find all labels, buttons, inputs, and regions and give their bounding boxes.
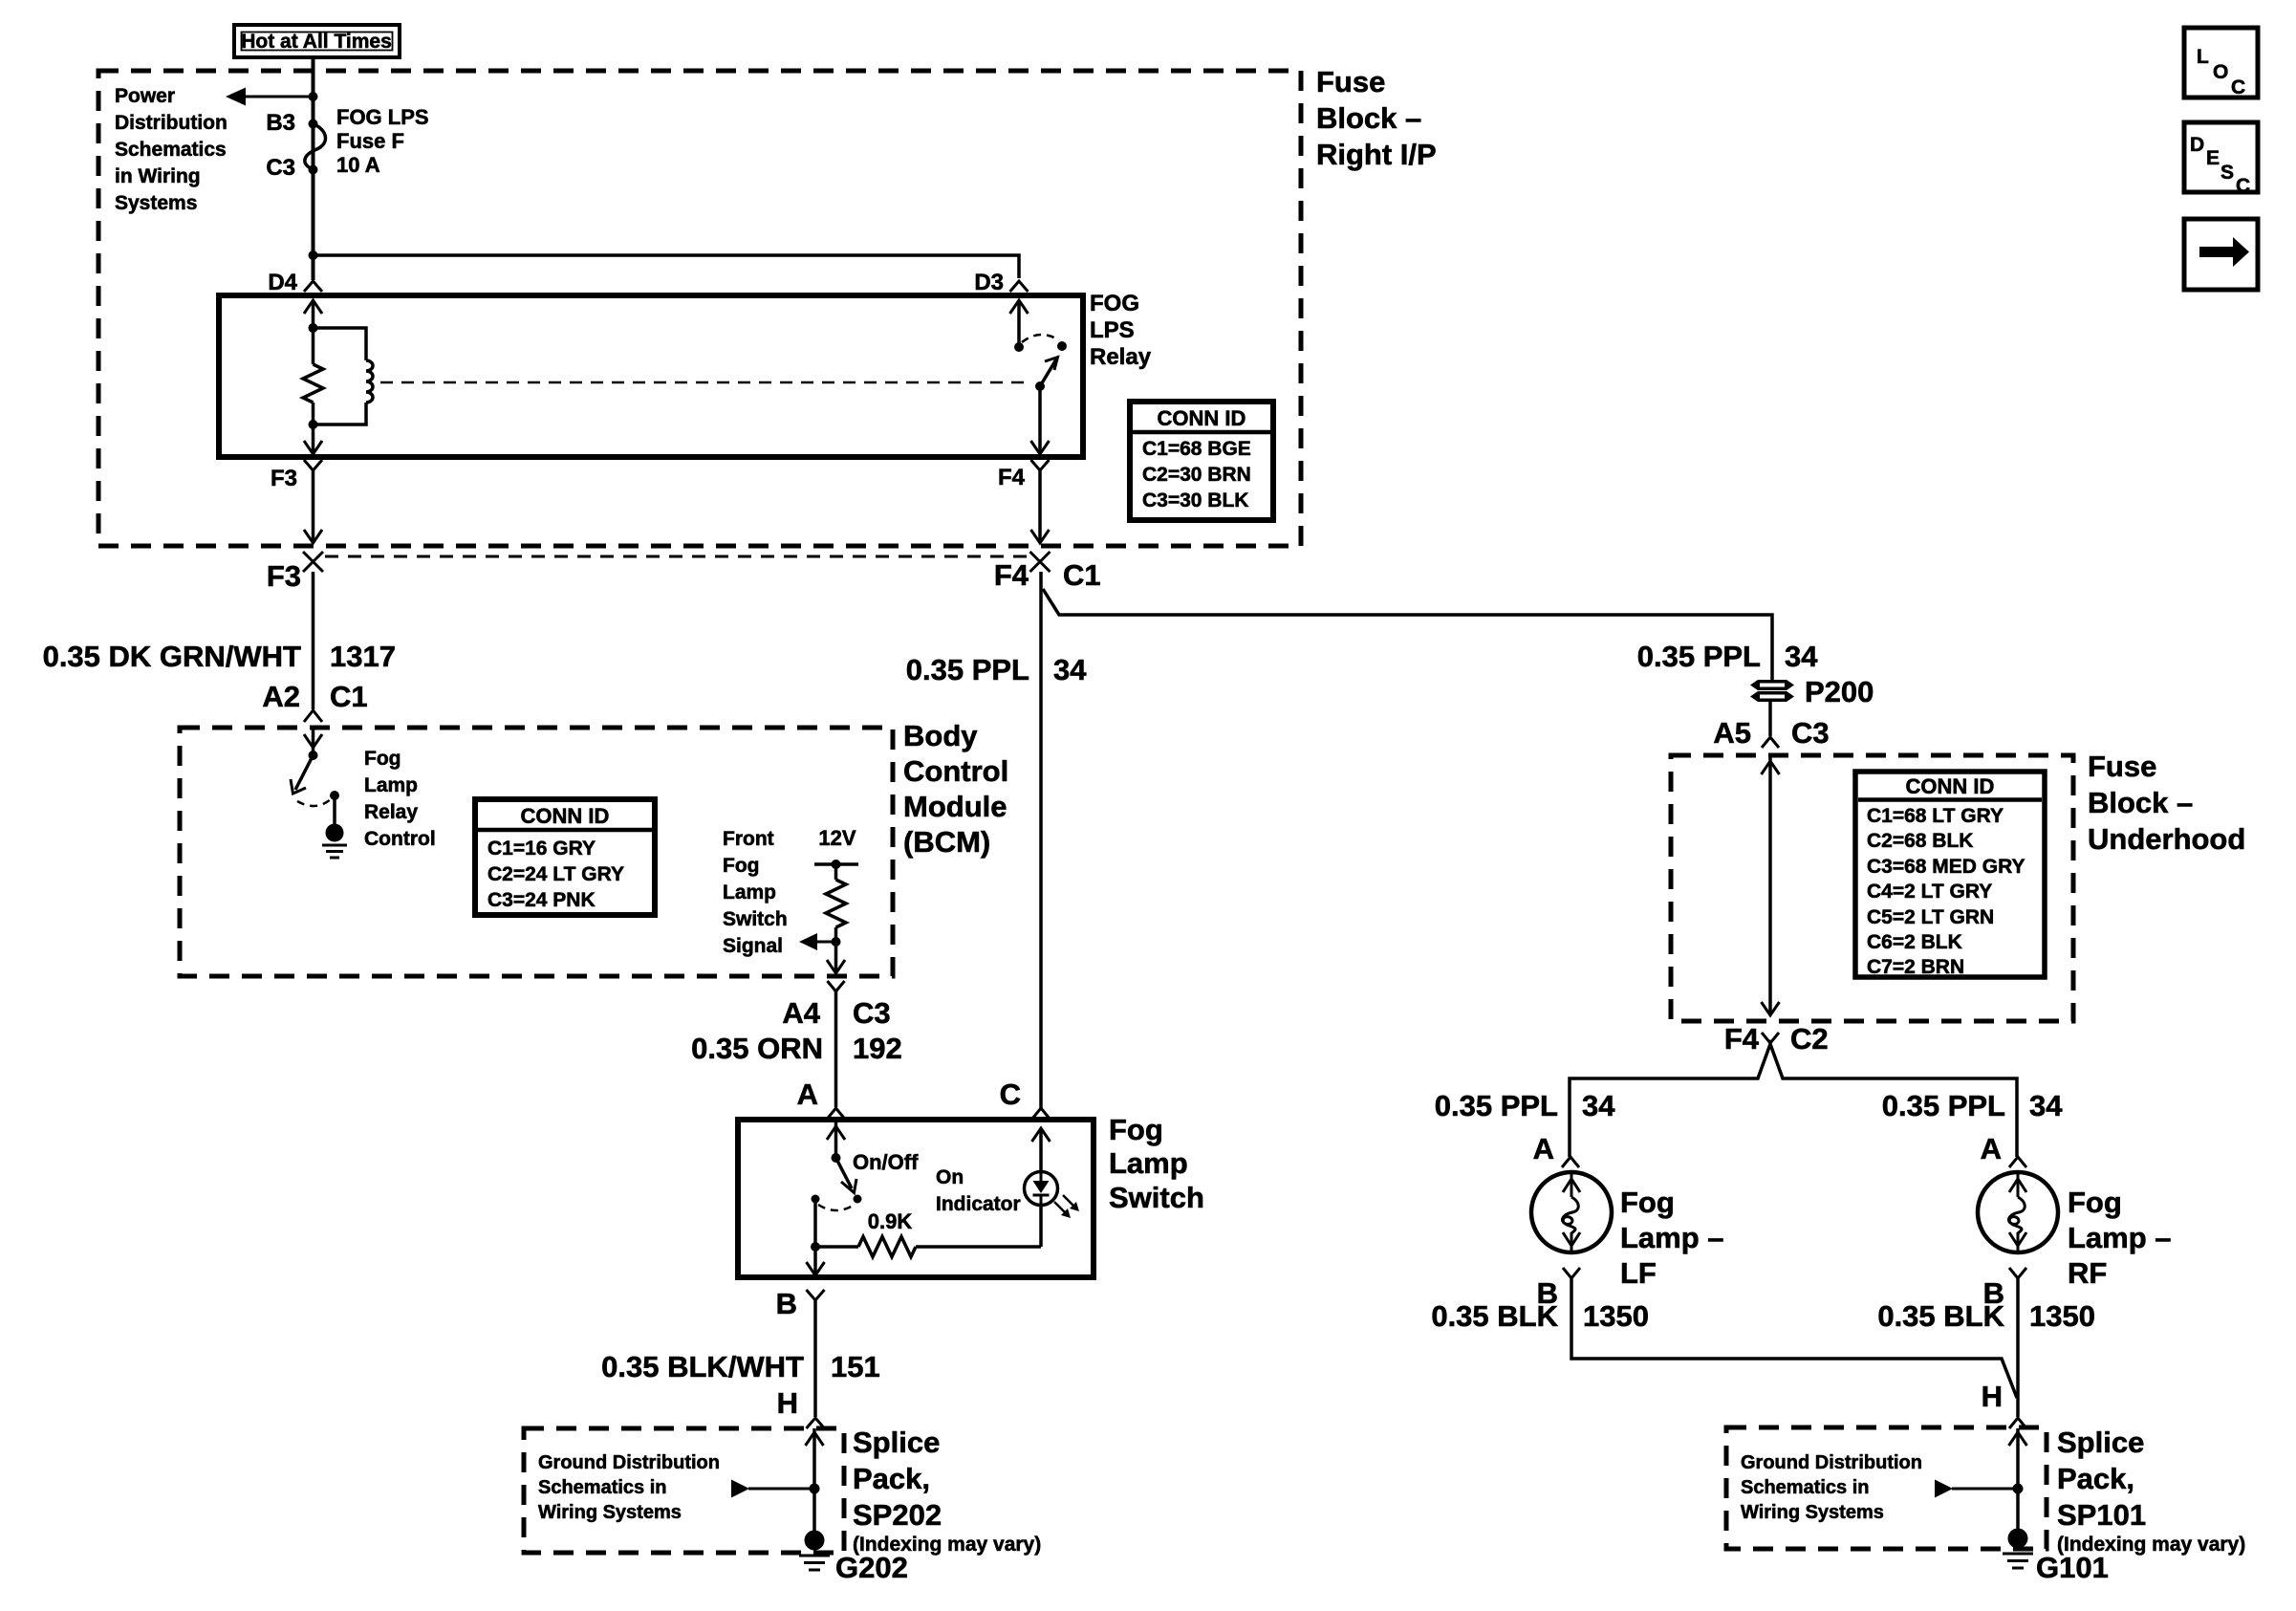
svg-text:FOG: FOG [1090, 291, 1139, 316]
svg-text:151: 151 [831, 1350, 880, 1383]
pin B lamp LF [1537, 1268, 1580, 1310]
pin A2 C1 [262, 680, 367, 722]
svg-text:P200: P200 [1805, 675, 1874, 708]
wire dashed control arc [297, 799, 331, 806]
svg-text:Fog: Fog [1109, 1113, 1163, 1146]
svg-text:L: L [2197, 46, 2209, 68]
svg-text:On/Off: On/Off [853, 1150, 919, 1174]
wire contact to output junction [813, 1199, 817, 1247]
node coil top junction [309, 323, 318, 333]
svg-text:0.9K: 0.9K [868, 1209, 913, 1233]
svg-text:Switch: Switch [1109, 1181, 1204, 1214]
svg-text:Relay: Relay [364, 801, 418, 823]
switch fog lamp relay control driver [291, 751, 318, 794]
svg-text:Lamp –: Lamp – [1620, 1221, 1724, 1254]
svg-text:D3: D3 [974, 270, 1004, 295]
svg-text:34: 34 [1582, 1089, 1615, 1122]
label Fog Lamp - RF [2068, 1186, 2172, 1290]
svg-text:C7=2 BRN: C7=2 BRN [1867, 956, 1964, 978]
label 0.35 BLK 1350 LF [1431, 1299, 1649, 1333]
label Splice Pack SP101 [2057, 1426, 2245, 1556]
svg-text:1350: 1350 [2029, 1299, 2095, 1333]
label 0.35 PPL 34 right top [1637, 640, 1818, 673]
svg-text:0.35 PPL: 0.35 PPL [906, 653, 1029, 686]
pin F4 relay [998, 460, 1050, 490]
svg-text:F3: F3 [271, 466, 297, 491]
resistor relay suppression [303, 328, 323, 425]
wire through underhood fuse block [1762, 755, 1780, 1015]
wire relay actuation dashed link [380, 381, 1032, 384]
svg-text:0.35 DK GRN/WHT: 0.35 DK GRN/WHT [43, 640, 301, 673]
svg-text:Fog: Fog [723, 855, 759, 877]
pin H splice pack SP202 [777, 1386, 825, 1428]
wire signal sense arrow [799, 933, 836, 950]
svg-text:D: D [2190, 134, 2204, 156]
svg-text:C3=30 BLK: C3=30 BLK [1142, 490, 1248, 512]
inductor relay coil [314, 328, 374, 425]
svg-text:(BCM): (BCM) [903, 825, 990, 859]
svg-text:Switch: Switch [723, 908, 788, 930]
svg-text:LPS: LPS [1090, 317, 1135, 343]
wire signal to A4 [827, 942, 845, 973]
label 0.35 PPL 34 mid [906, 653, 1087, 686]
svg-text:Distribution: Distribution [115, 112, 227, 134]
label Fog Lamp Switch [1109, 1113, 1204, 1214]
svg-text:S: S [2220, 162, 2234, 184]
svg-text:Splice: Splice [2057, 1426, 2144, 1459]
svg-text:Body: Body [903, 719, 978, 752]
svg-text:0.35 PPL: 0.35 PPL [1435, 1089, 1558, 1122]
svg-text:Pack,: Pack, [853, 1462, 930, 1495]
svg-text:F4: F4 [994, 558, 1029, 592]
svg-text:C3: C3 [266, 155, 295, 181]
svg-text:SP202: SP202 [853, 1498, 942, 1532]
node splice junction SP202 [810, 1484, 820, 1494]
wire branch to D3 [314, 255, 1020, 278]
pin A4 C3 [782, 981, 890, 1030]
wire ground reference arrow SP202 [731, 1480, 814, 1498]
svg-text:C1=16 GRY: C1=16 GRY [487, 838, 596, 860]
svg-text:D4: D4 [268, 270, 297, 295]
label Fog Lamp Relay Control [364, 748, 436, 850]
table CONN ID C1=68 BGE [1130, 402, 1273, 520]
svg-text:Lamp: Lamp [723, 882, 776, 903]
svg-text:C: C [2231, 76, 2245, 98]
svg-text:Fog: Fog [1620, 1186, 1675, 1219]
svg-text:SP101: SP101 [2057, 1498, 2146, 1532]
node 12V supply rail [814, 826, 858, 869]
svg-text:34: 34 [1785, 640, 1818, 673]
label 0.35 ORN 192 [691, 1032, 902, 1065]
ground distribution dashed box SP202 [524, 1428, 844, 1553]
svg-text:Hot at All Times: Hot at All Times [241, 31, 392, 53]
svg-text:0.35 PPL: 0.35 PPL [1637, 640, 1761, 673]
svg-text:C3=24 PNK: C3=24 PNK [487, 889, 596, 911]
svg-text:RF: RF [2068, 1256, 2107, 1290]
wire output to B with arrow [807, 1247, 825, 1275]
svg-text:H: H [777, 1386, 798, 1420]
ground G202 [799, 1531, 908, 1585]
svg-text:On: On [936, 1166, 964, 1188]
svg-text:Front: Front [723, 828, 774, 850]
wire H into splice pack SP101 [2009, 1428, 2027, 1530]
pin A lamp LF [1533, 1132, 1579, 1167]
svg-text:A: A [1533, 1132, 1554, 1165]
svg-text:Indicator: Indicator [936, 1193, 1021, 1215]
LED light emission arrows [1054, 1195, 1079, 1218]
svg-text:C: C [1000, 1078, 1021, 1111]
table CONN ID C1=68 LT GRY [1855, 772, 2045, 978]
connector F3 x-splice [267, 552, 323, 593]
svg-text:192: 192 [853, 1032, 902, 1065]
resistor 0.9K [815, 1209, 1041, 1257]
wire LED to C pin [1032, 1128, 1051, 1172]
svg-text:10 A: 10 A [336, 153, 380, 177]
node switch signal junction [832, 937, 841, 947]
svg-text:Lamp: Lamp [1109, 1146, 1188, 1180]
svg-text:A4: A4 [782, 996, 820, 1030]
wire A into switch [827, 1120, 845, 1158]
node relay switch fixed contact [1014, 342, 1024, 352]
node junction power-dist tap [309, 92, 318, 101]
label 0.35 BLK/WHT 151 [601, 1350, 880, 1383]
svg-text:A5: A5 [1713, 716, 1751, 750]
svg-text:Fog: Fog [364, 748, 401, 770]
pin A5 C3 [1713, 702, 1829, 750]
label Fuse Block - Right I/P [1316, 65, 1437, 171]
wire F4 C1 to fog lamp switch C [1039, 572, 1043, 1108]
relay box FOG LPS Relay [219, 295, 1083, 457]
pin C switch [1000, 1078, 1050, 1119]
label 0.35 DK GRN/WHT 1317 [43, 640, 396, 673]
node junction to D3 branch [309, 250, 318, 260]
svg-text:Control: Control [364, 828, 436, 850]
wire power distribution reference arrow [226, 88, 314, 106]
node splice junction SP101 [2013, 1484, 2024, 1494]
svg-text:C3: C3 [1791, 716, 1830, 750]
label Fuse Block - Underhood [2088, 750, 2245, 856]
resistor pull-up BCM [826, 864, 846, 942]
svg-text:C1: C1 [1063, 558, 1101, 592]
svg-text:CONN ID: CONN ID [1906, 774, 1995, 798]
svg-text:C3=68 MED GRY: C3=68 MED GRY [1867, 856, 2025, 878]
fuse block right I/P dashed box [98, 71, 1301, 546]
svg-text:Block –: Block – [2088, 786, 2193, 819]
svg-text:LF: LF [1620, 1256, 1657, 1290]
svg-text:G101: G101 [2036, 1551, 2109, 1584]
pin D4 [268, 270, 322, 295]
wire B to H [813, 1300, 817, 1417]
svg-text:0.35 BLK: 0.35 BLK [1877, 1299, 2004, 1333]
svg-text:C1=68 LT GRY: C1=68 LT GRY [1867, 805, 2004, 827]
svg-text:Lamp –: Lamp – [2068, 1221, 2172, 1254]
svg-text:Ground Distribution: Ground Distribution [538, 1452, 720, 1473]
wire A2 into BCM [304, 728, 322, 755]
node Hot at All Times [234, 25, 400, 57]
wire relay output to F4 [1031, 386, 1050, 454]
svg-text:Right I/P: Right I/P [1316, 138, 1437, 171]
label FOG LPS Relay [1090, 291, 1152, 370]
svg-text:Underhood: Underhood [2088, 822, 2245, 856]
wire coil to F3 with arrow [304, 425, 322, 454]
label On Indicator [936, 1166, 1021, 1215]
wire ground reference arrow SP101 [1935, 1480, 2018, 1498]
wire branch C1 to underhood [1043, 589, 1772, 680]
svg-text:Control: Control [903, 754, 1008, 788]
label 0.35 PPL 34 lamp LF [1435, 1089, 1615, 1122]
svg-text:Schematics: Schematics [115, 139, 227, 161]
svg-text:A: A [797, 1078, 818, 1111]
wire dashed contact arc [1022, 335, 1059, 342]
wire A4 to fog lamp switch [834, 991, 838, 1107]
label 0.35 BLK 1350 RF [1877, 1299, 2095, 1333]
label 0.35 PPL 34 lamp RF [1882, 1089, 2063, 1122]
svg-text:B: B [776, 1287, 797, 1320]
wire F3 to BCM A2 [312, 572, 315, 709]
svg-text:E: E [2206, 147, 2220, 169]
node coil bottom junction [309, 420, 318, 429]
switch on/off contact arm [832, 1153, 857, 1193]
svg-text:Power: Power [115, 85, 175, 107]
svg-text:Systems: Systems [115, 192, 197, 214]
svg-text:in Wiring: in Wiring [115, 165, 201, 187]
label Fog Lamp - LF [1620, 1186, 1724, 1290]
svg-text:Wiring Systems: Wiring Systems [538, 1502, 682, 1523]
note Ground Distribution Schematics in Wiring Systems right [1741, 1452, 1922, 1523]
pin F4 C2 splice [1724, 1022, 1829, 1056]
svg-text:(Indexing may vary): (Indexing may vary) [2057, 1534, 2245, 1556]
svg-text:Block –: Block – [1316, 101, 1421, 135]
wire RF ground run [2016, 1278, 2020, 1417]
connector P200 [1750, 675, 1874, 708]
wire LF ground run [1571, 1278, 2017, 1398]
svg-text:C2=24 LT GRY: C2=24 LT GRY [487, 863, 624, 885]
wire relay coil input from D4 [304, 300, 322, 328]
svg-text:CONN ID: CONN ID [521, 804, 610, 828]
svg-text:H: H [1982, 1380, 2003, 1413]
svg-text:(Indexing may vary): (Indexing may vary) [853, 1534, 1041, 1556]
ground distribution dashed box SP101 [1726, 1427, 2047, 1549]
svg-text:C1=68 BGE: C1=68 BGE [1142, 438, 1251, 460]
svg-text:C2=30 BRN: C2=30 BRN [1142, 464, 1251, 486]
pin B lamp RF [1983, 1268, 2026, 1310]
wire F4 C2 split to both lamps [1570, 1044, 2017, 1157]
svg-text:1350: 1350 [1583, 1299, 1649, 1333]
pin H splice pack SP101 [1982, 1380, 2026, 1428]
svg-text:C4=2 LT GRY: C4=2 LT GRY [1867, 881, 1992, 903]
connector F4 C1 x-splice [994, 552, 1101, 592]
ground G101 [2003, 1529, 2109, 1585]
ground internal BCM [322, 795, 347, 858]
svg-text:Fuse: Fuse [2088, 750, 2156, 783]
svg-text:C: C [2236, 175, 2250, 197]
svg-text:Fuse: Fuse [1316, 65, 1385, 98]
lamp fog LF [1531, 1172, 1612, 1252]
svg-text:0.35 ORN: 0.35 ORN [691, 1032, 823, 1065]
svg-text:12V: 12V [818, 826, 856, 850]
svg-text:C5=2 LT GRN: C5=2 LT GRN [1867, 906, 1994, 928]
svg-text:Fuse F: Fuse F [336, 129, 404, 153]
svg-text:C1: C1 [330, 680, 368, 713]
note Ground Distribution Schematics in Wiring Systems [538, 1452, 720, 1523]
pin A switch [797, 1078, 845, 1119]
node control contact [330, 791, 339, 800]
svg-text:34: 34 [2029, 1089, 2063, 1122]
note Power Distribution Schematics in Wiring Systems [115, 85, 227, 214]
svg-text:C2: C2 [1790, 1022, 1829, 1056]
svg-text:Lamp: Lamp [364, 774, 418, 796]
node switch contact right [854, 1195, 862, 1204]
node output junction [811, 1242, 820, 1252]
lamp fog RF [1978, 1172, 2058, 1252]
svg-text:0.35 BLK/WHT: 0.35 BLK/WHT [601, 1350, 804, 1383]
fuse FOG LPS Fuse F 10 A [305, 124, 326, 170]
svg-text:Pack,: Pack, [2057, 1462, 2134, 1495]
wire F3 to fuse block edge [304, 470, 322, 543]
svg-text:Wiring Systems: Wiring Systems [1741, 1502, 1884, 1523]
pin B3 [309, 120, 318, 129]
icon LOC box [2184, 28, 2258, 98]
svg-text:F4: F4 [998, 465, 1026, 490]
svg-text:Module: Module [903, 790, 1007, 823]
wire main feed from Hot at All Times [312, 57, 315, 280]
svg-text:C6=2 BLK: C6=2 BLK [1867, 931, 1962, 953]
svg-text:Relay: Relay [1090, 344, 1152, 370]
svg-text:C2=68 BLK: C2=68 BLK [1867, 830, 1973, 852]
svg-text:0.35 PPL: 0.35 PPL [1882, 1089, 2005, 1122]
body control module dashed box [180, 728, 893, 976]
pin A lamp RF [1981, 1132, 2026, 1167]
node switch contact left [812, 1195, 820, 1204]
svg-text:B3: B3 [266, 110, 295, 136]
svg-text:F4: F4 [1724, 1022, 1760, 1056]
svg-text:1317: 1317 [330, 640, 396, 673]
wire relay switch input from D3 [1010, 300, 1029, 347]
svg-text:Splice: Splice [853, 1426, 940, 1459]
svg-text:C3: C3 [853, 996, 891, 1030]
svg-text:FOG LPS: FOG LPS [336, 105, 429, 129]
svg-text:O: O [2213, 61, 2228, 83]
pin B switch [776, 1287, 825, 1320]
icon next-page arrow box [2184, 219, 2258, 290]
svg-text:CONN ID: CONN ID [1158, 406, 1246, 430]
svg-text:0.35 BLK: 0.35 BLK [1431, 1299, 1558, 1333]
svg-text:G202: G202 [835, 1551, 908, 1584]
node relay switch alternate contact [1057, 341, 1067, 351]
wire H into splice pack [806, 1428, 824, 1532]
table CONN ID C1=16 GRY [475, 799, 655, 915]
svg-text:A2: A2 [262, 680, 300, 713]
icon DESC box [2184, 122, 2258, 197]
wire F4 to fuse block edge [1031, 470, 1050, 543]
label Body Control Module (BCM) [903, 719, 1008, 859]
label Front Fog Lamp Switch Signal [723, 828, 788, 957]
svg-text:Schematics in: Schematics in [538, 1477, 667, 1498]
svg-text:Fog: Fog [2068, 1186, 2122, 1219]
svg-text:F3: F3 [267, 559, 301, 593]
svg-text:Signal: Signal [723, 935, 783, 957]
fog lamp switch box [738, 1120, 1094, 1277]
label Splice Pack SP202 [853, 1426, 1041, 1556]
LED on indicator [1025, 1172, 1058, 1248]
wire connector C1 dashed face line [325, 555, 1029, 558]
svg-text:34: 34 [1053, 653, 1087, 686]
pin F3 relay [271, 460, 322, 491]
pin D3 [974, 270, 1028, 295]
wire dashed switch arc [818, 1205, 855, 1210]
svg-text:A: A [1981, 1132, 2002, 1165]
switch relay movable arm [1035, 358, 1058, 392]
svg-text:Ground Distribution: Ground Distribution [1741, 1452, 1922, 1473]
fuse block underhood dashed box [1671, 755, 2073, 1021]
svg-text:Schematics in: Schematics in [1741, 1477, 1870, 1498]
